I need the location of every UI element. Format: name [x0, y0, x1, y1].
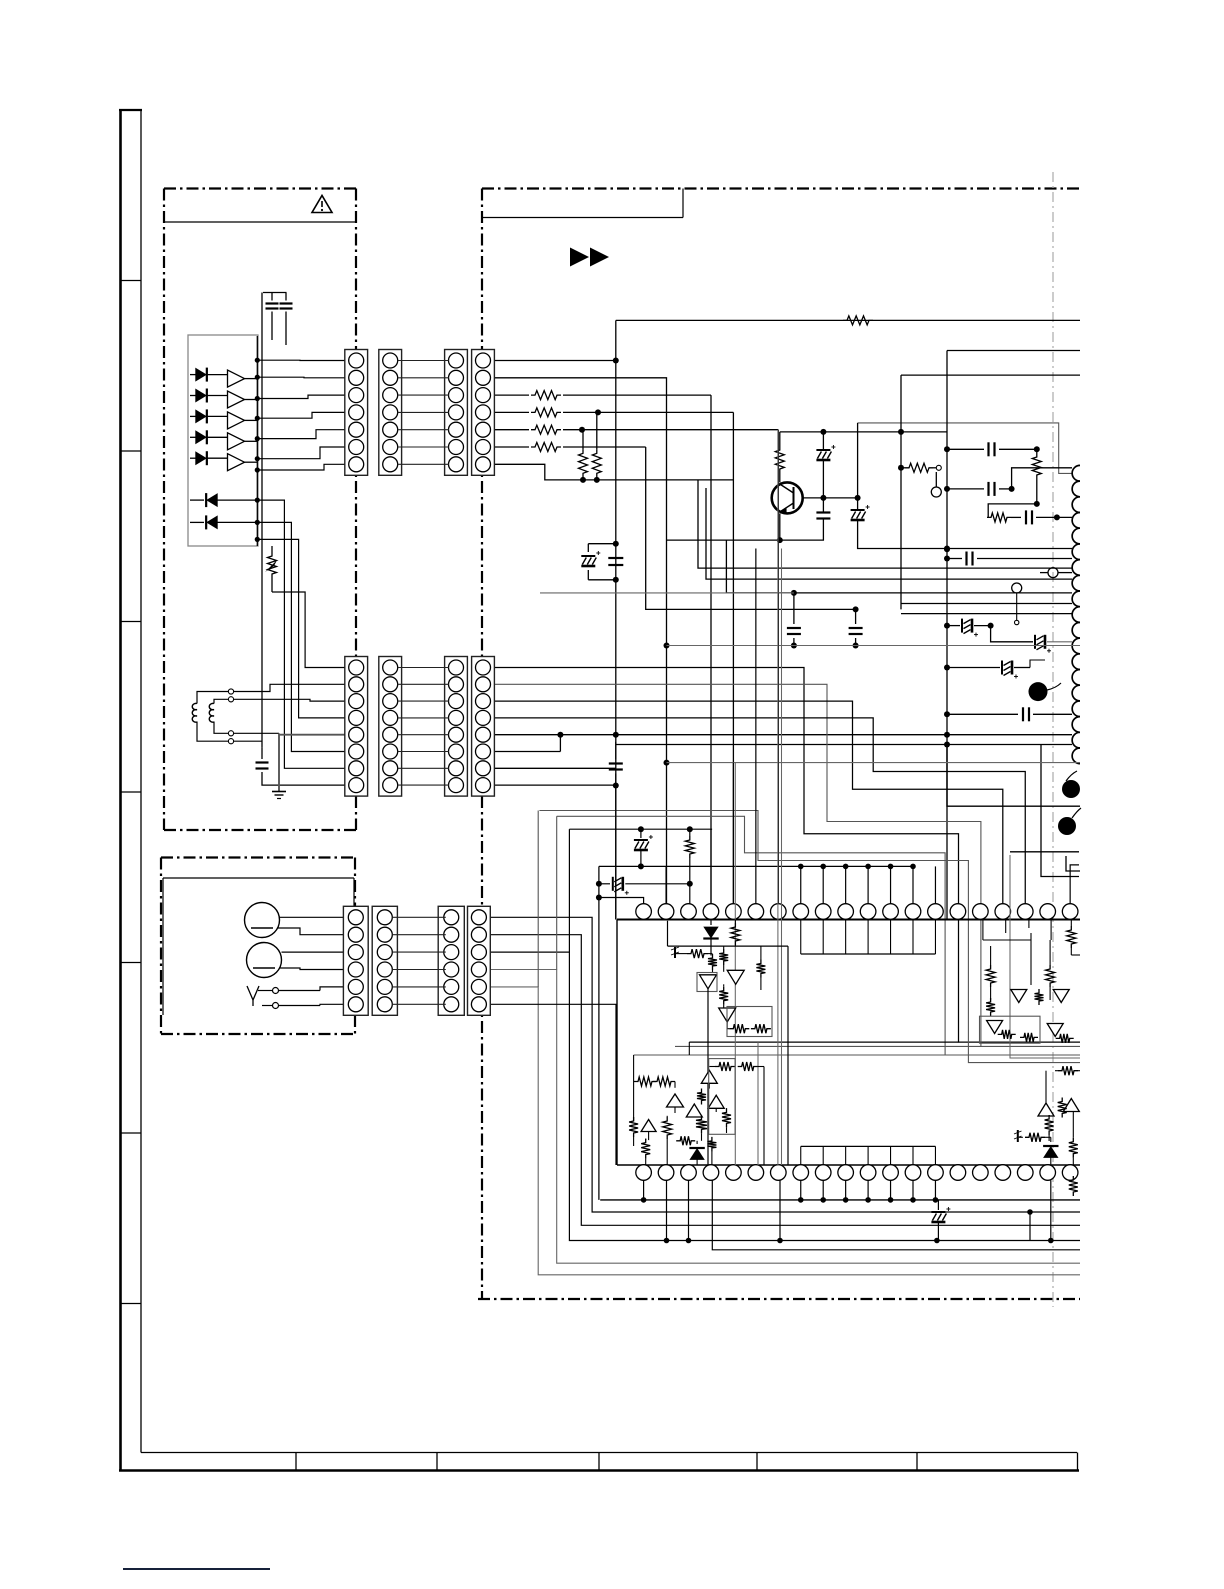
warning symbol: [312, 196, 332, 213]
terminal S1 a: [273, 988, 279, 994]
terminal T1: [228, 731, 233, 736]
wire pin1 stub: [665, 866, 667, 903]
wire g3 row3 staircase: [491, 952, 1080, 1240]
wire tie CN1 B-C: [398, 429, 449, 431]
resistor RD4: [1035, 989, 1044, 1005]
wire tie CN3 F-G: [392, 916, 446, 918]
terminal T1: [228, 689, 233, 694]
wire grey pass b: [781, 549, 783, 1166]
border tick left 7: [121, 1303, 142, 1305]
electrolytic EB1: [937, 1200, 939, 1210]
IC1 body outline: [617, 919, 1080, 921]
connector CN1-D: [472, 350, 495, 476]
wire grey pass a: [777, 430, 779, 1165]
electrolytic EN2: [991, 626, 1033, 642]
IC1 inner ladder top: [801, 953, 936, 955]
ground GND1: [272, 791, 286, 793]
terminal S1 b: [273, 1003, 279, 1009]
wire LED to CN1 row5: [257, 430, 348, 439]
wire g1 row7: [494, 464, 733, 480]
connector CN3-G: [438, 906, 464, 1015]
wire UC1 out: [707, 989, 709, 1165]
opamp UE4: [708, 1095, 724, 1108]
pad P1 (black): [1029, 682, 1048, 701]
tap TF1: [1017, 1130, 1019, 1142]
footer rule: [123, 1568, 270, 1570]
electrolytic EN4: [596, 881, 602, 887]
wire tie CN2 B-C: [398, 717, 449, 719]
wire tie CN1 B-C: [398, 377, 449, 379]
border tick bottom 5: [916, 1453, 918, 1471]
wire g2 row7: [494, 767, 615, 769]
wire tie CN1 B-C: [398, 394, 449, 396]
opamp UC1: [700, 975, 717, 989]
terminal T1: [228, 739, 233, 744]
resistor RF2: [1058, 1098, 1067, 1118]
cluster2 feed: [982, 920, 984, 941]
open terminal TN3: [1012, 583, 1022, 593]
connector CN2-D: [472, 657, 495, 797]
IC1 bottom pins: [636, 1165, 652, 1181]
resistor RF6: [1069, 1176, 1078, 1196]
wire bundle v5: [272, 592, 349, 668]
border tick left 5: [121, 962, 142, 964]
LED D2: [190, 395, 196, 397]
wire LED to CN1 row6: [257, 447, 348, 459]
border tick left 3: [121, 621, 142, 623]
wire g3 row6: [491, 1004, 616, 1165]
node LED bus: [255, 358, 260, 363]
buffer U2: [228, 391, 245, 408]
wire tie CN3 F-G: [392, 1003, 446, 1005]
wire Q1 emitter left: [667, 539, 780, 541]
node LED bus: [255, 537, 260, 542]
shield box 2 outline: [482, 187, 1083, 189]
wire bundle v1: [261, 546, 263, 748]
transformer T1: [192, 703, 197, 722]
wire pin3 stub: [710, 829, 712, 904]
resistor RN1: [1032, 453, 1041, 479]
wire grey pass c: [734, 763, 736, 1165]
wire tie CN2 B-C: [398, 683, 449, 685]
wire shelf ext 2: [675, 1045, 981, 1047]
node LED bus: [255, 467, 260, 472]
resistor VR1: [268, 552, 277, 578]
wire right top 2: [947, 350, 1080, 352]
LED D5: [190, 457, 196, 459]
opamp UC2: [727, 970, 744, 984]
grey dash-dot net line: [1052, 172, 1054, 1307]
electrolytic EB2: [640, 829, 642, 838]
resistor RF3: [1045, 1115, 1054, 1135]
IC1 pin stubs up: [732, 763, 734, 904]
wire g3 row1 staircase: [491, 917, 1080, 1212]
resistor RD2: [1046, 965, 1055, 987]
LED bus: [256, 336, 258, 546]
wire g3 row5 staircase: [491, 987, 1080, 1275]
resistor RE5: [641, 1139, 650, 1159]
wire g2 row3: [494, 701, 1002, 904]
border tick left 6: [121, 1132, 142, 1134]
wire bundle v3: [257, 522, 348, 751]
page border frame bottom: [119, 1469, 1079, 1472]
tap TC1: [674, 947, 676, 958]
pad P3 (black): [1058, 817, 1076, 835]
resistor RC2: [687, 949, 708, 958]
resistor divider R b: [592, 449, 601, 477]
resistor RD7: [1056, 1034, 1074, 1043]
cluster3 box: [709, 1059, 735, 1135]
IC1 second bus: [664, 1238, 670, 1244]
wire M2 b: [279, 968, 348, 970]
resistor RE10: [676, 1136, 695, 1145]
IC3 pin edge (scalloped): [1072, 465, 1080, 481]
wire tie CN3 F-G: [392, 951, 446, 953]
wire LED to CN1 row3: [257, 395, 348, 398]
border tick left 1: [121, 280, 142, 282]
buffer U5: [228, 454, 245, 471]
wire g2 row6: [494, 751, 560, 753]
wire long vertical A: [615, 361, 617, 920]
diode DF1: [1050, 1137, 1052, 1142]
pad P2 (black): [1062, 780, 1080, 798]
wire stair 3: [726, 540, 1072, 593]
resistor RN2: [905, 463, 933, 472]
connector CN2-C: [445, 657, 468, 797]
opamp UF1: [1038, 1103, 1054, 1116]
LED D1: [190, 374, 196, 376]
capacitor C12: [816, 511, 830, 513]
wire tie CN2 B-C: [398, 700, 449, 702]
open terminal TN2: [1048, 568, 1058, 578]
opamp UD1: [1011, 990, 1027, 1003]
shield box 3 inner line: [163, 877, 354, 879]
wire g2 row8: [494, 784, 615, 786]
opamp UD2: [1053, 990, 1069, 1003]
buffer U1: [228, 370, 245, 387]
wire pad feed: [1041, 745, 1079, 877]
diode DC1: [710, 920, 712, 926]
wire T1 d: [234, 740, 262, 742]
wire bottom right step: [712, 1180, 1080, 1250]
resistor Q1 collector: [775, 446, 784, 473]
wire long vertical B: [946, 351, 948, 920]
terminal T1: [228, 697, 233, 702]
wire vert to IC1: [615, 786, 617, 920]
switch S1: [247, 986, 259, 1000]
LED D4: [190, 436, 196, 438]
node LED bus: [255, 520, 260, 525]
opamp UC3: [719, 1008, 736, 1022]
wire gnd g2row5: [279, 734, 349, 736]
node LED bus: [255, 456, 260, 461]
wire tie CN2 B-C: [398, 767, 449, 769]
electrolytic EN1: [947, 625, 960, 627]
right IC stub box: [1010, 851, 1079, 853]
wire long vertical C: [900, 375, 902, 609]
resistor RC6: [719, 987, 728, 1005]
opamp UE3: [641, 1120, 656, 1132]
IC1 top pins: [636, 904, 652, 920]
resistor RD5: [998, 1030, 1016, 1039]
resistor RF1: [1058, 1066, 1078, 1075]
resistor RE3: [629, 1117, 638, 1137]
wire shelf ext 3: [634, 1054, 946, 1056]
wire T1 a: [234, 684, 349, 691]
wire LED to CN1 row1: [257, 359, 348, 361]
wire LED to CN1 row2: [257, 376, 348, 379]
resistor RD6: [1020, 1033, 1038, 1042]
shield box 3 outline (bottom-left): [161, 856, 355, 858]
opamp UE1: [667, 1094, 684, 1107]
wire T1 c: [234, 732, 279, 734]
wire M2 a: [282, 951, 349, 953]
wire g2 row1: [494, 668, 1080, 1043]
connector CN2-A: [345, 657, 368, 797]
node LED bus: [255, 396, 260, 401]
cluster4 shelf: [1030, 1070, 1055, 1072]
connector CN1-B: [379, 350, 402, 476]
wire LED to CN1 row4: [257, 412, 348, 418]
wire Q1 top node: [780, 431, 947, 433]
wire pass v3: [1010, 855, 1080, 1058]
mic M2: [247, 943, 282, 978]
wire g3 row4 staircase: [491, 970, 1080, 1264]
electrolytic EN3: [947, 667, 1000, 669]
wire tie CN2 B-C: [398, 751, 449, 753]
wire net row g: [616, 744, 1072, 746]
wire scallop lead b: [901, 613, 1072, 615]
connector CN3-H: [468, 906, 491, 1015]
IC1 bottom bus: [600, 1199, 1080, 1201]
buffer U4: [228, 433, 245, 450]
wire g3 riser up c: [537, 811, 539, 987]
border tick left 2: [121, 450, 142, 452]
wire tie CN3 F-G: [392, 986, 446, 988]
cluster1 shelf: [668, 945, 789, 947]
wire g3 row2 staircase: [491, 935, 1080, 1226]
wire bus left corner: [598, 866, 600, 1200]
wire g2 row4: [494, 718, 1025, 904]
node LED bus: [255, 436, 260, 441]
resistor RF5: [1025, 1133, 1045, 1142]
page border frame left: [119, 110, 122, 1471]
border tick bottom 4: [756, 1453, 758, 1471]
wire S1 stub: [258, 990, 273, 992]
wire T1 b: [234, 699, 349, 701]
wire right top 3: [901, 374, 1080, 376]
wire net row a: [947, 448, 984, 450]
wire LED to CN1 row7: [257, 464, 348, 470]
resistor RC5: [756, 960, 765, 978]
resistor RE4: [663, 1117, 672, 1139]
wire bundle v4: [257, 539, 348, 718]
wire stair 1: [698, 480, 1072, 568]
wire grey h2: [667, 762, 1081, 764]
opamp UD3: [987, 1021, 1003, 1034]
wire tie CN2 B-C: [398, 734, 449, 736]
border tick left 4: [121, 791, 142, 793]
resistor divider R a: [579, 449, 588, 477]
node LED bus: [255, 498, 260, 503]
opamp UE2: [686, 1104, 702, 1117]
connector CN2-B: [379, 657, 402, 797]
wire grey h1: [667, 645, 1081, 647]
capacitor elect CE2: [851, 509, 865, 511]
mic M1: [245, 903, 280, 938]
resistor RE8: [707, 1137, 716, 1152]
resistor RD1: [986, 965, 995, 987]
opamp UE5: [701, 1070, 717, 1083]
resistor RE6: [697, 1089, 706, 1105]
wire grey pass d: [757, 1042, 759, 1165]
transistor Q1: [772, 482, 803, 513]
wire g1 row6: [531, 443, 561, 452]
wire net row d: [947, 558, 962, 560]
wire pin19 stub: [1070, 865, 1079, 904]
wire M1 a: [280, 916, 349, 918]
open terminal TN1: [931, 487, 941, 497]
cluster3 wire top: [688, 1042, 690, 1055]
resistor RB1: [685, 836, 694, 858]
wire g3 riser up a: [568, 829, 570, 952]
capacitor elect CE1: [816, 449, 830, 451]
cluster3 shelves: [688, 1041, 690, 1043]
capacitor C3: [256, 761, 269, 763]
capacitor C14: [793, 593, 795, 624]
resistor RC7: [729, 1024, 749, 1033]
wire g3 riser up b: [556, 816, 558, 969]
capacitor C13: [609, 762, 623, 764]
wire tie CN1 B-C: [398, 360, 449, 362]
wire vertical B corner: [947, 745, 1080, 807]
wire g2 row2: [494, 684, 1080, 1046]
diode DE1: [696, 1141, 698, 1144]
LED D3: [190, 415, 196, 417]
capacitor C1/C2 top: [263, 292, 287, 294]
wire grey h3: [540, 592, 794, 594]
node LED bus: [255, 416, 260, 421]
wire g1 row3: [531, 391, 561, 400]
resistor RC3: [708, 954, 717, 970]
connector CN3-E: [343, 906, 368, 1015]
opamp UF2: [1063, 1099, 1079, 1112]
shield box 1 header line: [164, 221, 356, 223]
IC1 inner ladder bottom: [801, 1145, 936, 1147]
shield box 1 outline (top-left): [164, 187, 356, 189]
wire tie CN1 B-C: [398, 411, 449, 413]
wire scallop lead a: [901, 603, 1072, 605]
wire bottom right branch: [1029, 1212, 1031, 1241]
node LED bus: [255, 375, 260, 380]
resistor RD3: [986, 998, 995, 1016]
IC1 top bus: [599, 865, 913, 867]
wire net row f: [560, 734, 1072, 736]
wire net row c: [988, 504, 1037, 518]
border tick bottom 3: [598, 1453, 600, 1471]
resistor RD0: [1067, 926, 1076, 948]
wire Q1 emitter: [786, 513, 788, 540]
wire g2 row5: [494, 734, 560, 736]
resistor RF4: [1069, 1138, 1078, 1158]
LED block outline: [188, 335, 258, 546]
connector CN1-A: [345, 350, 368, 476]
buffer U3: [228, 412, 245, 429]
wire shelf feed 2: [539, 811, 1080, 1063]
connector CN1-C: [445, 350, 468, 476]
wire tie CN1 B-C: [398, 446, 449, 448]
resistor RE2: [715, 1062, 735, 1071]
wire g1 row4: [531, 408, 561, 417]
resistor RC4: [719, 949, 728, 965]
connector CN3-F: [372, 906, 397, 1015]
wire tie CN1 B-C: [398, 463, 449, 465]
wire grey mid: [858, 423, 1072, 474]
capacitor pair C10/C11: [588, 543, 616, 545]
wire Q1 base: [803, 497, 858, 499]
resistor RC1: [731, 923, 740, 945]
wire top bus: [616, 319, 1080, 321]
wire M1 b: [277, 928, 348, 935]
capacitor C15: [855, 609, 857, 624]
wire tie CN2 B-C: [398, 784, 449, 786]
resistor RE7: [696, 1115, 707, 1133]
wire tie CN3 F-G: [392, 934, 446, 936]
wire tie CN3 F-G: [392, 969, 446, 971]
opamp UD4: [1047, 1024, 1063, 1037]
resistor RE9: [722, 1108, 731, 1127]
wire g1 row2: [494, 378, 666, 904]
resistor RE1: [634, 1077, 656, 1086]
wire feed row1 up: [615, 320, 617, 360]
wire shelf ext 1: [689, 1041, 958, 1043]
wire net row e: [947, 713, 1018, 715]
shield box 2 header: [482, 217, 683, 219]
diode D6: [190, 499, 204, 501]
wire g1 row5: [531, 425, 561, 434]
cluster1 box: [727, 1007, 772, 1037]
diode D7: [190, 521, 204, 523]
wire net row b: [947, 488, 984, 490]
wire bundle v2: [257, 500, 348, 768]
border tick bottom 1: [295, 1453, 297, 1471]
wire ladder 829: [569, 828, 712, 830]
wire shelf feed 1: [557, 816, 1080, 1055]
wire g1 row1: [494, 360, 615, 362]
fast-forward mark: [570, 248, 589, 267]
wire tie CN2 B-C: [398, 667, 449, 669]
cluster2 box: [980, 1016, 1041, 1043]
border tick bottom 2: [436, 1453, 438, 1471]
wire stair 2: [706, 488, 1072, 579]
